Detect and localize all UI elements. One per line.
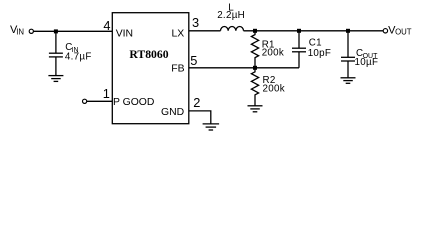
svg-text:2: 2 <box>193 95 200 110</box>
svg-text:VIN: VIN <box>116 28 133 39</box>
svg-text:10pF: 10pF <box>308 48 332 59</box>
svg-text:GND: GND <box>161 107 184 118</box>
svg-text:LX: LX <box>172 28 185 39</box>
svg-text:FB: FB <box>171 64 184 75</box>
svg-text:C1: C1 <box>309 37 322 48</box>
svg-text:3: 3 <box>192 15 199 30</box>
svg-text:200k: 200k <box>262 48 284 59</box>
svg-text:1: 1 <box>103 86 110 101</box>
svg-text:P GOOD: P GOOD <box>113 97 154 108</box>
svg-text:2.2µH: 2.2µH <box>217 10 245 21</box>
svg-text:4.7µF: 4.7µF <box>65 52 92 63</box>
svg-text:200k: 200k <box>263 83 285 94</box>
svg-text:RT8060: RT8060 <box>129 48 168 61</box>
svg-text:10µF: 10µF <box>355 57 379 68</box>
svg-text:IN: IN <box>16 28 24 37</box>
svg-text:5: 5 <box>190 53 197 68</box>
svg-text:OUT: OUT <box>395 28 412 37</box>
svg-text:4: 4 <box>103 18 110 33</box>
